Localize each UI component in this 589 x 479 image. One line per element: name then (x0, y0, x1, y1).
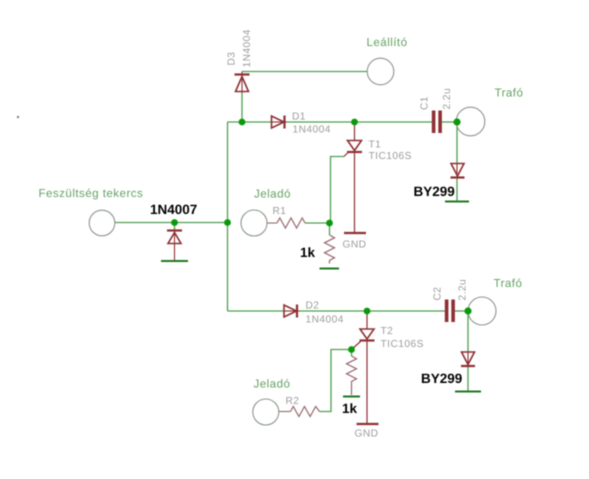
diode D1 (272, 116, 287, 129)
wire: BY299-1 branch lower (456, 179, 458, 201)
pad circle: Jelado (bottom) (253, 399, 279, 425)
svg-text:Trafó: Trafó (495, 87, 524, 100)
wire: T2 gate to R2 path (320, 350, 352, 412)
svg-text:BY299: BY299 (414, 184, 455, 199)
junction dot T2 gate / 1k (348, 346, 355, 353)
wire: stub junction to 1k (bottom) (351, 350, 353, 357)
wire: BY299-2 branch lower (467, 366, 469, 391)
capacitor C1 (432, 111, 442, 134)
ground symbol GND under T1 (344, 232, 366, 234)
wire: row D between D2 and T2 junction and C2 (299, 310, 445, 312)
resistor 1k (bottom) vertical (347, 356, 357, 395)
junction dot row B / T1 (351, 119, 358, 126)
svg-text:T1: T1 (369, 140, 382, 151)
svg-text:GND: GND (343, 240, 367, 251)
svg-text:2.2u: 2.2u (442, 88, 453, 110)
junction dot after C2 (464, 307, 471, 314)
wire: D3 vertical stub to row B junction (241, 93, 243, 122)
resistor 1k (top) vertical (325, 235, 335, 264)
wire: T1 gate net vertical (331, 157, 345, 224)
svg-text:C1: C1 (420, 96, 431, 110)
svg-text:R1: R1 (273, 206, 287, 217)
diode D2 (284, 305, 299, 318)
svg-text:GND: GND (355, 429, 379, 440)
wire: R1 to junction (305, 222, 330, 224)
wire: Jelado2 pad to R2 (279, 411, 291, 413)
diode BY299 (bottom) (461, 352, 475, 367)
svg-text:D2: D2 (306, 301, 320, 312)
wire: Jelado1 pad to R1 (267, 222, 277, 224)
junction dot 1N4007 (171, 219, 178, 226)
pad circle: Jelado (top) (241, 210, 267, 236)
svg-text:Feszültség tekercs: Feszültség tekercs (39, 187, 144, 200)
svg-text:2.2u: 2.2u (458, 279, 469, 301)
svg-text:1k: 1k (342, 401, 358, 416)
svg-text:Leállító: Leállító (367, 36, 408, 49)
svg-text:D1: D1 (292, 112, 306, 123)
svg-text:C2: C2 (433, 287, 444, 301)
svg-text:1N4007: 1N4007 (150, 202, 197, 217)
svg-text:Trafó: Trafó (494, 277, 523, 290)
diode D3 (235, 72, 250, 94)
ground symbol GND under T2 (357, 423, 379, 425)
junction dot row B / D3 (239, 119, 246, 126)
svg-text:Jeladó: Jeladó (254, 188, 291, 201)
junction dot after C1 (453, 118, 460, 125)
svg-text:1N4004: 1N4004 (293, 125, 331, 136)
junction dot R1/1k/gate (326, 220, 333, 227)
thyristor T1 TIC106S (344, 122, 362, 233)
wire: 1N4007 top stub (174, 223, 176, 230)
capacitor C2 (445, 300, 455, 323)
ground bar under 1N4007 (161, 260, 188, 262)
wire: BY299-2 branch upper (467, 311, 469, 352)
svg-text:TIC106S: TIC106S (369, 151, 412, 162)
svg-text:TIC106S: TIC106S (381, 339, 424, 350)
svg-text:R2: R2 (286, 396, 300, 407)
bar under 1k (top) (320, 268, 340, 270)
pad circle: Feszultseg tekercs (89, 210, 115, 236)
wire: BY299-1 branch upper (456, 122, 458, 163)
svg-text:1k: 1k (300, 245, 316, 260)
wire: row B (D1 row) left segment with left-bus corner (228, 121, 272, 123)
wire: Leallito net (row A) from D3 to pad (242, 71, 367, 73)
pad circle: Leallito (367, 58, 394, 85)
svg-text:1N4004: 1N4004 (306, 315, 344, 326)
stray dot artifact (17, 116, 19, 118)
junction dot row D / T2 (364, 308, 371, 315)
resistor R2 (291, 407, 320, 417)
bar under 1k (bottom) (343, 396, 360, 398)
wire: input row C from Feszultseg pad to bus (115, 222, 228, 224)
pad circle: Trafo (top) (456, 107, 485, 136)
svg-text:BY299: BY299 (421, 371, 462, 386)
diode BY299 (top) (451, 164, 465, 179)
pad circle: Trafo (bottom) (468, 297, 496, 325)
wire: stub junction to 1k (top) (329, 223, 331, 235)
svg-text:Jeladó: Jeladó (254, 378, 291, 391)
ground bar under BY299 (bottom) (455, 391, 481, 393)
svg-text:T2: T2 (381, 326, 394, 337)
junction dot left bus (224, 219, 231, 226)
diode 1N4007 (167, 229, 182, 261)
wire: row D (D2 row) left segment (228, 310, 284, 312)
thyristor T2 TIC106S (352, 311, 375, 424)
ground bar under BY299 (top) (445, 201, 469, 203)
resistor R1 (277, 218, 305, 228)
wire: row D after C2 to Trafo pad (454, 310, 469, 312)
wire: row B after C1 to Trafo pad (442, 121, 458, 123)
svg-text:D3: D3 (227, 52, 238, 66)
wire: row B between D1 and T1 junction and C1 (287, 121, 433, 123)
wire: left vertical bus (227, 122, 229, 311)
svg-text:1N4004: 1N4004 (242, 29, 253, 67)
